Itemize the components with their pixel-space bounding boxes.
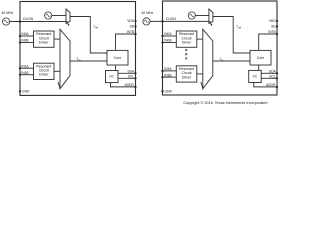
reference mux MUX3 xyxy=(209,9,213,24)
svg-text:I²C: I²C xyxy=(109,75,114,79)
svg-text:CLKIN: CLKIN xyxy=(23,17,34,21)
svg-text:IN0A: IN0A xyxy=(21,32,29,36)
label f_ref xyxy=(94,25,99,30)
internal oscillator xyxy=(188,12,195,19)
svg-text:IN3B: IN3B xyxy=(164,73,172,77)
wire INTB net xyxy=(116,34,136,50)
I2C block xyxy=(106,71,119,83)
svg-text:ADDR: ADDR xyxy=(124,83,134,87)
node SD pin dot xyxy=(276,25,278,27)
wire SDA net xyxy=(261,72,277,74)
wire IN1B xyxy=(20,74,34,76)
reference mux MUX1 xyxy=(66,9,70,24)
svg-text:SDA: SDA xyxy=(269,70,277,74)
mux MUX4 select arrow xyxy=(201,82,204,89)
resonant circuit driver CH0 xyxy=(34,31,55,47)
node VDD pin dot xyxy=(134,20,136,22)
wire driver CH3 output xyxy=(197,73,203,75)
node INTB pin dot xyxy=(276,33,278,35)
node ADDR pin dot xyxy=(134,86,136,88)
svg-text:VDD: VDD xyxy=(127,19,135,23)
node IN0A pin dot xyxy=(19,35,21,37)
wire CLKIN net xyxy=(10,21,66,23)
node CLKIN junction dot xyxy=(19,20,21,22)
svg-text:IN1B: IN1B xyxy=(21,71,29,75)
wire driver CH0 output xyxy=(54,38,60,40)
wire core to I2C xyxy=(115,65,117,71)
svg-text:IN3A: IN3A xyxy=(164,67,172,71)
wire f_in net xyxy=(70,60,107,62)
node channel ellipsis dots xyxy=(185,49,187,59)
node IN1A pin dot xyxy=(19,67,21,69)
node SDA pin dot xyxy=(134,72,136,74)
svg-text:GND: GND xyxy=(22,89,30,93)
node IN0A pin dot xyxy=(161,35,163,37)
svg-text:Driver: Driver xyxy=(182,75,192,79)
wire internal osc to mux xyxy=(195,15,209,17)
wire CLKIN net xyxy=(150,20,209,22)
wire internal osc to mux xyxy=(52,15,66,17)
label resonant circuit driver CH3 text xyxy=(179,67,194,79)
mux MUX3 select arrow xyxy=(210,21,213,26)
channel mux MUX2 xyxy=(60,29,70,88)
wire SDA net xyxy=(118,72,136,74)
node VDD pin dot xyxy=(276,20,278,22)
wire IN3A xyxy=(163,70,177,72)
svg-text:SD: SD xyxy=(271,25,276,29)
svg-text:SDA: SDA xyxy=(127,70,135,74)
svg-text:Core: Core xyxy=(257,56,265,60)
svg-text:INTB: INTB xyxy=(268,30,276,34)
label f_ref xyxy=(237,25,242,30)
node SCL pin dot xyxy=(134,77,136,79)
node IN3A pin dot xyxy=(161,70,163,72)
external oscillator X2 (40 MHz) xyxy=(143,18,150,25)
node CLKIN junction dot xyxy=(161,20,163,22)
label f_in xyxy=(220,57,224,62)
svg-text:ref: ref xyxy=(238,26,241,30)
svg-text:ref: ref xyxy=(95,26,98,30)
wire ADDR net xyxy=(254,83,277,87)
wire INTB net xyxy=(259,34,277,50)
internal oscillator xyxy=(45,12,52,19)
external oscillator X1 (40 MHz) xyxy=(3,18,10,25)
core block xyxy=(250,50,271,65)
svg-text:Driver: Driver xyxy=(39,40,49,44)
svg-text:IN0B: IN0B xyxy=(164,39,172,43)
label resonant circuit driver CH1 text xyxy=(36,64,51,76)
svg-text:Core: Core xyxy=(114,56,122,60)
label f_in xyxy=(77,57,81,62)
wire core to I2C xyxy=(258,65,260,70)
svg-text:40 MHz: 40 MHz xyxy=(141,11,153,15)
device outer box U2 xyxy=(163,1,278,95)
wire IN0B xyxy=(20,42,34,44)
node ADDR pin dot xyxy=(276,86,278,88)
svg-text:VDD: VDD xyxy=(269,19,277,23)
wire IN0A xyxy=(20,35,34,37)
node IN0B pin dot xyxy=(161,41,163,43)
mux MUX2 select arrow xyxy=(58,82,61,89)
wire IN0A xyxy=(163,35,177,37)
I2C block xyxy=(249,70,262,82)
wire driver CH0 output xyxy=(197,38,203,40)
node SDA pin dot xyxy=(276,72,278,74)
label resonant circuit driver CH0 text xyxy=(179,32,194,44)
svg-text:IN0A: IN0A xyxy=(164,32,172,36)
node IN0B pin dot xyxy=(19,41,21,43)
wire IN3B xyxy=(163,76,177,78)
channel mux MUX4 xyxy=(203,29,213,88)
wire f_ref net xyxy=(213,17,250,54)
svg-text:SCL: SCL xyxy=(128,75,135,79)
mux MUX1 select arrow xyxy=(67,21,70,26)
wire IN0B xyxy=(163,42,177,44)
resonant circuit driver CH3 xyxy=(176,66,197,82)
svg-text:I²C: I²C xyxy=(253,75,258,79)
svg-text:SCL: SCL xyxy=(269,75,276,79)
wire f_in net xyxy=(213,60,250,62)
resonant circuit driver CH0 xyxy=(176,31,197,47)
node IN3B pin dot xyxy=(161,76,163,78)
resonant circuit driver CH1 xyxy=(34,63,55,79)
svg-text:Driver: Driver xyxy=(182,40,192,44)
svg-text:INTB: INTB xyxy=(127,30,135,34)
svg-text:CLKIN: CLKIN xyxy=(166,17,177,21)
core block xyxy=(107,50,128,65)
node GND pin dot xyxy=(161,90,163,92)
wire SCL net xyxy=(118,77,136,79)
wire driver CH1 output xyxy=(54,70,60,72)
label resonant circuit driver CH0 text xyxy=(36,32,51,44)
svg-text:SD: SD xyxy=(130,25,135,29)
node IN1B pin dot xyxy=(19,74,21,76)
device outer box U1 xyxy=(20,2,136,96)
svg-text:IN1A: IN1A xyxy=(21,64,29,68)
wire IN1A xyxy=(20,67,34,69)
svg-text:IN0B: IN0B xyxy=(21,39,29,43)
node SCL pin dot xyxy=(276,77,278,79)
svg-text:Copyright © 2016, Texas Instru: Copyright © 2016, Texas Instruments Inco… xyxy=(183,101,267,105)
svg-text:ADDR: ADDR xyxy=(266,83,276,87)
node INTB pin dot xyxy=(134,33,136,35)
svg-text:GND: GND xyxy=(165,89,173,93)
node GND pin dot xyxy=(19,90,21,92)
node SD pin dot xyxy=(134,25,136,27)
wire f_ref net xyxy=(70,17,107,54)
wire SCL net xyxy=(261,77,277,79)
wire ADDR net xyxy=(111,83,136,87)
svg-text:40 MHz: 40 MHz xyxy=(1,11,13,15)
svg-text:Driver: Driver xyxy=(39,73,49,77)
